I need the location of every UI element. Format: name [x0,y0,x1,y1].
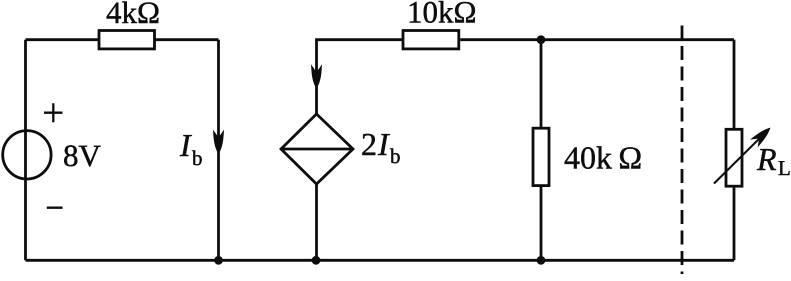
svg-text:b: b [192,146,203,170]
svg-text:4kΩ: 4kΩ [106,0,160,30]
load label RL [756,141,791,180]
wire top-left segment [26,38,100,41]
wire left vertical [24,40,27,261]
variable arrow through RL [714,129,769,184]
wire top right segment [460,38,734,41]
wire right branch upper [733,40,736,130]
wire right side of left loop [217,40,220,261]
svg-text:R: R [756,141,777,177]
dashed cut line [681,26,684,275]
wire 40k branch lower [540,186,543,261]
svg-text:I: I [377,126,390,162]
wire middle branch top corner [317,40,404,114]
node dot left-loop bottom [214,256,223,265]
node dot top [537,35,546,44]
svg-text:2: 2 [361,126,377,162]
resistor R 4k box [99,31,155,49]
dependent source 2Ib diamond [281,114,353,184]
current arrow Ib [214,131,224,153]
wire right branch lower [733,186,736,260]
resistor R 10k box [403,31,459,49]
svg-text:10kΩ: 10kΩ [407,0,477,30]
minus sign [47,206,63,208]
source label 2Ib [361,126,401,168]
wire bottom [26,259,735,262]
wire top-left to right of 4k [155,38,219,41]
node dot middle bottom [312,256,321,265]
wire below diamond [315,184,318,260]
svg-text:L: L [778,156,791,180]
plus sign [44,103,63,122]
resistor RL box [726,129,742,186]
current label Ib [179,127,203,170]
voltage source Vs 8V circle [3,131,51,179]
resistor R 40k box [533,128,549,185]
wire 40k branch upper [540,40,543,129]
svg-text:40k Ω: 40k Ω [564,140,642,176]
node dot 40k bottom [537,256,546,265]
svg-text:8V: 8V [63,138,102,173]
svg-text:I: I [179,127,192,163]
svg-text:b: b [390,144,401,168]
current arrow into source [312,66,322,88]
